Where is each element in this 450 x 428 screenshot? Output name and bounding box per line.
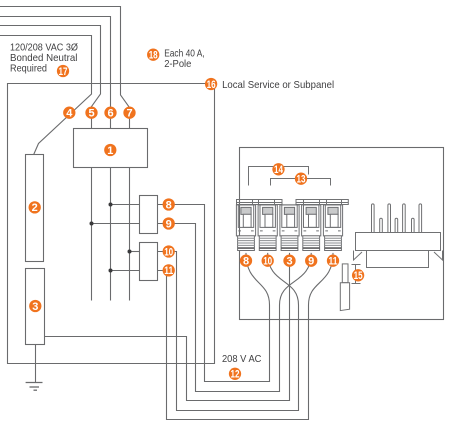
wire callout 8 right (240, 255, 252, 268)
callout 18 (147, 49, 159, 62)
breaker unit for wire 9 (302, 205, 321, 251)
callout 12 (229, 368, 241, 381)
svg-text:2-Pole: 2-Pole (164, 59, 192, 70)
ground symbol (26, 383, 43, 391)
callout 3 (29, 300, 41, 313)
prong 6 short (412, 218, 415, 232)
svg-text:9: 9 (308, 256, 314, 268)
component 3 (ground bar) (26, 269, 45, 345)
callout 2 (29, 201, 41, 214)
bus wire C below box1 (129, 168, 131, 301)
svg-text:6: 6 (107, 108, 113, 120)
junction dot 11 (109, 269, 113, 273)
breaker A (40A 2-pole) (140, 196, 158, 234)
bus wire A below box1 (91, 168, 93, 301)
terminal block body (356, 233, 441, 251)
branch wire to breaker A input 8 (111, 204, 140, 206)
svg-text:Local Service or Subpanel: Local Service or Subpanel (222, 80, 334, 91)
branch wire to breaker B input 10 (130, 251, 140, 253)
left panel enclosure (8, 84, 215, 364)
callout 7 (123, 107, 135, 120)
callout 4 (63, 107, 75, 120)
callout 15 (352, 269, 364, 282)
ground wire (35, 345, 37, 383)
svg-text:17: 17 (59, 66, 68, 78)
svg-text:5: 5 (88, 108, 94, 120)
cap rail left (237, 200, 283, 205)
junction dot 9 (90, 222, 94, 226)
junction dot 10 (128, 250, 132, 254)
prong 1 tall (372, 204, 375, 232)
wire 10 run (158, 252, 299, 411)
wire end component 15 (342, 264, 348, 283)
svg-text:18: 18 (149, 50, 158, 62)
callout 13 (295, 173, 307, 186)
meter/main box 1 (74, 129, 148, 168)
right panel enclosure (240, 148, 444, 320)
breaker unit for wire 11 (323, 205, 342, 251)
component 2 (neutral bar) (26, 155, 44, 262)
svg-text:3: 3 (32, 301, 38, 313)
svg-text:Required: Required (10, 63, 47, 74)
wire service neutral (to 4, component 2) (0, 36, 92, 155)
svg-text:16: 16 (207, 79, 216, 91)
svg-text:9: 9 (166, 218, 172, 230)
svg-text:8: 8 (243, 256, 249, 268)
wire callout 3 right (283, 255, 295, 268)
right panel internals (237, 167, 349, 205)
svg-text:2: 2 (32, 202, 38, 214)
wire 3 run (45, 253, 290, 401)
callout 11 (163, 264, 175, 277)
junction dot 8 (109, 203, 113, 207)
wire 11 run (158, 253, 334, 420)
wire service L2 (to 6) (0, 17, 111, 129)
svg-text:4: 4 (66, 108, 73, 120)
bracket 13 (271, 179, 331, 186)
callout 1 (104, 144, 116, 157)
prong 5 tall (403, 204, 406, 232)
bracket for 15 (352, 265, 361, 284)
branch wire to breaker B input 11 (111, 270, 140, 272)
svg-text:1: 1 (107, 145, 113, 157)
terminal block lower part (367, 251, 429, 268)
svg-text:7: 7 (126, 108, 132, 120)
bus wire B below box1 (110, 168, 112, 301)
wire service L3 (to 5) (0, 26, 101, 129)
bracket 14 (249, 167, 309, 186)
svg-text:15: 15 (354, 270, 363, 282)
callout 17 (57, 65, 69, 78)
prong 4 short (395, 218, 398, 232)
svg-text:12: 12 (231, 369, 240, 381)
branch wire to breaker A input 9 (92, 223, 140, 225)
prong 2 short (380, 218, 383, 232)
svg-text:11: 11 (164, 265, 173, 277)
svg-text:120/208 VAC 3Ø: 120/208 VAC 3Ø (10, 42, 78, 53)
svg-text:Bonded Neutral: Bonded Neutral (10, 53, 77, 64)
breaker B (40A 2-pole) (140, 243, 158, 281)
wire callout 11 right (327, 255, 339, 268)
breaker unit for wire 8 (236, 205, 255, 251)
callout 16 (205, 78, 217, 91)
callout 10 (163, 245, 175, 258)
breaker unit for wire 10 (258, 205, 277, 251)
wire callout 9 right (305, 255, 317, 268)
svg-text:Each 40 A,: Each 40 A, (164, 48, 205, 59)
callout 9 (163, 217, 175, 230)
svg-text:10: 10 (263, 256, 272, 268)
svg-text:11: 11 (329, 256, 338, 268)
svg-text:208 V AC: 208 V AC (222, 354, 261, 365)
svg-text:10: 10 (164, 246, 173, 258)
wire callout 10 right (262, 255, 274, 268)
svg-text:14: 14 (274, 164, 284, 176)
svg-text:3: 3 (286, 256, 292, 268)
callout 6 (104, 107, 116, 120)
wire 8 run (158, 205, 270, 382)
callout 8 (163, 198, 175, 211)
svg-text:13: 13 (297, 174, 306, 186)
callout 14 (272, 163, 284, 176)
wire 9 run (158, 224, 312, 392)
prong 3 tall (388, 204, 391, 232)
svg-text:8: 8 (166, 199, 172, 211)
terminal block right clip (434, 251, 443, 261)
breaker unit for wire 3 (280, 205, 299, 251)
wire service L1 (to 7) (0, 7, 130, 129)
cap rail right (296, 200, 348, 205)
prong 7 tall (419, 204, 422, 232)
callout 5 (85, 107, 97, 120)
terminal block left clip (354, 251, 363, 261)
